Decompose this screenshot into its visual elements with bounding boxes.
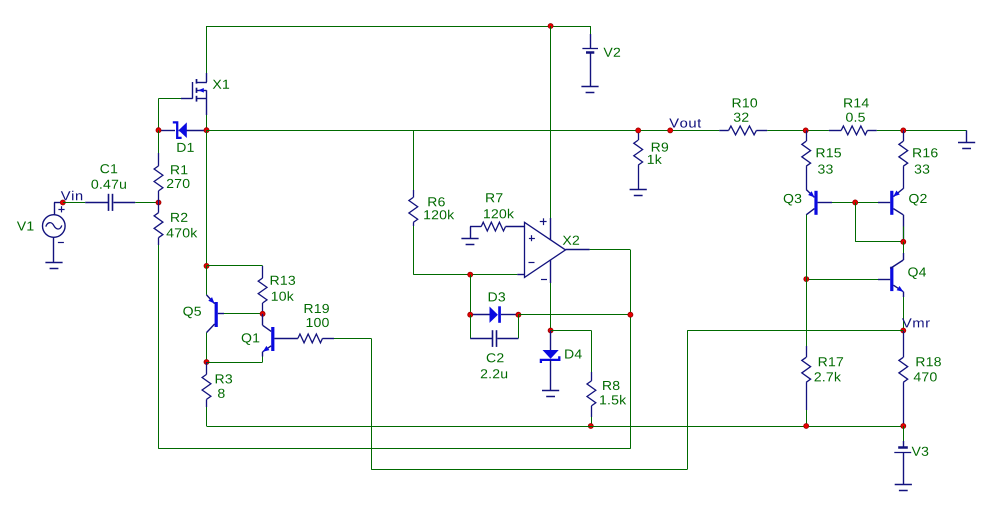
node base join	[853, 200, 858, 205]
wire base join run to Q2 collector	[855, 241, 903, 243]
label R10	[733, 98, 757, 107]
wire Q4 emitter to Vmr	[903, 297, 905, 331]
wire op-amp -V supply down	[550, 283, 552, 331]
node Vin	[60, 200, 65, 205]
label Q5	[183, 307, 201, 319]
capacitor C1	[85, 194, 135, 211]
resistor R7	[470, 226, 481, 228]
label R9	[652, 143, 668, 152]
label Vout	[669, 119, 701, 128]
node D1 cathode / rail	[204, 128, 209, 133]
diode D3	[473, 306, 517, 323]
wire Q3/Q2 base join	[832, 202, 878, 204]
wire R8 bottom to bottom rail	[591, 417, 593, 426]
wire R17 to bottom rail	[806, 410, 808, 426]
label R8	[603, 381, 619, 390]
wire Vmr run	[687, 330, 903, 332]
ground right end of rail	[966, 130, 968, 142]
resistor R18	[903, 331, 905, 357]
ground under V3	[895, 484, 912, 486]
wire op-amp output	[590, 249, 631, 251]
label R16 value	[915, 165, 930, 174]
label R13	[271, 276, 295, 285]
ground under R9	[630, 189, 647, 191]
wire gate drop to D1 anode node	[158, 99, 160, 131]
resistor R15	[806, 130, 808, 141]
label R8 value	[600, 395, 626, 405]
wire X1 source to rail	[206, 115, 208, 130]
wire Q3 collector drop to R17	[806, 215, 808, 346]
label R17	[819, 357, 843, 366]
capacitor C2	[493, 330, 497, 347]
wire rail drop to Q5/R13 node	[206, 130, 208, 266]
label R1 value	[167, 179, 190, 188]
label R14	[844, 98, 869, 107]
label C1 value	[91, 180, 126, 189]
label Q1	[242, 333, 260, 345]
label R18	[917, 357, 941, 366]
wire output return run y=449	[159, 448, 631, 450]
node D3 cathode	[516, 312, 521, 317]
label C2 value	[481, 369, 507, 378]
wire R19 to feedback drop	[334, 338, 371, 340]
label Q3	[784, 194, 802, 206]
node junction top rail / op-amp supply	[548, 24, 553, 29]
label R15	[817, 148, 841, 157]
wire node down to D3 row	[470, 275, 472, 315]
node R8 / bottom rail	[588, 424, 593, 429]
transistor Q4 (NPN)	[878, 253, 904, 297]
node R9 / rail	[636, 128, 641, 133]
wire feedback rise to Vmr	[687, 331, 689, 470]
resistor R14	[829, 130, 841, 132]
label Q4	[908, 267, 926, 279]
resistor R10	[719, 130, 728, 132]
wire R6 bottom to inverting input	[413, 226, 415, 275]
resistor R9	[638, 130, 640, 140]
source V1 (sine)	[43, 203, 66, 263]
node Q5 emitter / R13 top	[204, 263, 209, 268]
node inverting input / D3 branch	[468, 272, 473, 277]
label R3 value	[218, 389, 225, 398]
resistor R6	[413, 190, 415, 197]
label R6	[428, 197, 444, 206]
label R7	[486, 193, 502, 202]
wire R2 bottom long drop to feedback return	[158, 245, 160, 449]
wire Q1 emitter to Q5 collector node	[262, 357, 264, 363]
wire Vin to C1	[63, 202, 85, 204]
node Vout anchor	[668, 128, 673, 133]
label V2	[604, 48, 621, 57]
wire R8 drop	[591, 331, 593, 373]
node Q5 base / R13 / Q1 collector	[260, 311, 265, 316]
node rail / R15 / R10 / R14	[803, 128, 808, 133]
node C1 / R1 / R2	[156, 200, 161, 205]
node Q4 base / Q3 collector drop	[804, 277, 809, 282]
wire Q4 base run	[806, 279, 878, 281]
transistor Q2 (PNP)	[878, 189, 903, 215]
label R17 value	[815, 372, 842, 382]
node D3 anode	[468, 312, 473, 317]
transistor Q3 (PNP)	[806, 190, 832, 215]
wire top rail from X1 drain to V2	[207, 26, 591, 28]
node rail / R16 / R14	[901, 128, 906, 133]
ground under D4	[542, 390, 559, 392]
wire main output rail y=130	[207, 130, 720, 132]
label R9 value	[648, 154, 662, 164]
label R16	[913, 148, 937, 157]
resistor R3	[206, 362, 208, 374]
node R18 / V3 / bottom rail	[901, 424, 906, 429]
wire Q2 collector to Q4	[903, 242, 905, 253]
diode D4 (zener)	[541, 331, 559, 391]
wire rail to R1	[158, 130, 160, 153]
node Q2 collector / Q4 collector	[901, 239, 906, 244]
wire Q2 collector drop	[903, 215, 905, 242]
transistor Q5 (PNP)	[207, 295, 225, 333]
source V3 (battery)	[894, 426, 911, 485]
label R19 value	[307, 318, 329, 327]
label Q2	[909, 194, 927, 206]
node R17 / bottom rail	[804, 424, 809, 429]
transistor Q1 (NPN)	[263, 314, 298, 357]
wire op-amp +V supply from top rail	[550, 26, 552, 218]
mosfet X1	[181, 73, 207, 115]
node op-amp -V / D4 / R8 branch	[548, 328, 553, 333]
wire C1 to R1/R2 node	[135, 202, 159, 204]
resistor R17	[806, 351, 808, 357]
label R10 value	[734, 113, 749, 122]
label R13 value	[272, 291, 294, 301]
wire X1 gate to left	[159, 98, 182, 100]
wire Q5 base to R13 node	[224, 313, 263, 315]
resistor R13	[262, 266, 264, 278]
capacitor C2 loop	[470, 315, 472, 339]
resistor R8	[591, 372, 593, 381]
wire bottom rail y=425	[207, 426, 904, 428]
op-amp X2	[525, 218, 590, 283]
resistor R19	[298, 334, 323, 343]
node Q5 collector / R3 / Q1 emitter	[204, 360, 209, 365]
wire Q5 collector down	[206, 333, 208, 362]
diode D1 (zener)	[161, 122, 204, 138]
label R19	[305, 304, 329, 313]
resistor R1	[158, 153, 160, 166]
label R15 value	[818, 165, 833, 174]
label C2	[487, 353, 504, 362]
resistor R16	[903, 130, 905, 141]
label C1	[100, 164, 117, 173]
wire feedback drop x=371	[371, 338, 373, 469]
wire D3 row to output drop	[518, 314, 630, 316]
label R2 value	[167, 228, 198, 238]
wire X1 drain drop	[206, 26, 208, 73]
wire node to R13	[207, 265, 263, 267]
label V1	[17, 222, 34, 231]
label R7 value	[484, 209, 514, 219]
resistor R2	[158, 203, 160, 213]
label R6 value	[424, 210, 454, 220]
wire feedback bottom run y=469	[371, 469, 687, 471]
label D1	[177, 143, 193, 152]
node D3 row / output drop	[628, 312, 633, 317]
node Vmr	[901, 328, 906, 333]
wire rail between R10 and R14	[767, 130, 829, 132]
label Vin	[61, 191, 82, 201]
label R1	[171, 165, 187, 174]
label X2	[563, 236, 579, 245]
node D1 anode	[156, 128, 161, 133]
label D3	[489, 292, 505, 301]
label X1	[213, 80, 229, 89]
label Vmr	[902, 318, 930, 327]
wire R3 bottom to bottom rail	[206, 407, 208, 426]
wire rail right of R14 to ground	[877, 130, 967, 132]
wire output drop x=630	[630, 250, 632, 449]
source V2 (battery)	[582, 26, 598, 86]
ground under V1	[45, 262, 62, 264]
label R18 value	[914, 372, 937, 381]
ground for R7	[470, 227, 472, 238]
wire node to R8 corner	[551, 330, 592, 332]
label V3	[912, 447, 929, 456]
ground under V2	[581, 86, 598, 88]
wire rail drop to R6	[413, 130, 415, 190]
label D4	[565, 350, 582, 359]
wire base join drop	[855, 202, 857, 241]
label R14 value	[846, 113, 865, 122]
label R2	[171, 213, 187, 222]
label R3	[216, 374, 232, 383]
wire node down to Q5 emitter	[206, 266, 208, 295]
